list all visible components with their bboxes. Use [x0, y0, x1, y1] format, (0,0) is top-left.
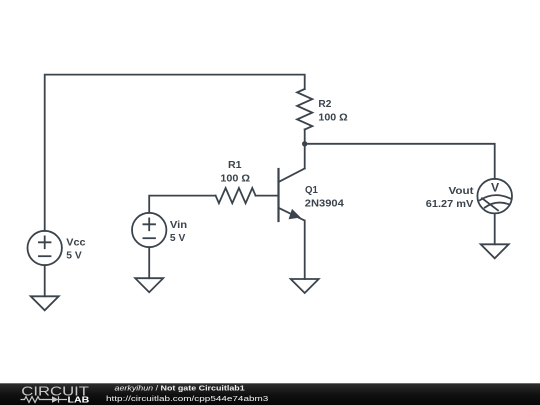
svg-text:2N3904: 2N3904 [305, 198, 344, 209]
ground (Vcc) [31, 296, 59, 310]
resistor R1 [216, 188, 256, 203]
logo resistor + diode line [21, 396, 68, 402]
svg-text:5 V: 5 V [170, 233, 186, 244]
wire emitter to ground [304, 221, 306, 280]
svg-text:61.27 mV: 61.27 mV [426, 199, 474, 210]
svg-text:Vout: Vout [449, 186, 475, 197]
transistor Q1 [279, 169, 305, 222]
svg-text:5 V: 5 V [66, 250, 82, 261]
label R1 value [220, 160, 250, 184]
label Vout value [426, 186, 474, 210]
label R2 value [318, 99, 347, 123]
wire voltmeter to ground [494, 213, 496, 244]
wire Vin to ground [148, 247, 150, 278]
ground (voltmeter) [481, 244, 509, 258]
svg-text:100 Ω: 100 Ω [318, 113, 347, 124]
svg-text:http://circuitlab.com/cpp544e7: http://circuitlab.com/cpp544e74abm3 [106, 394, 268, 403]
label Vin [170, 220, 187, 244]
ground (emitter) [291, 279, 319, 293]
label Q1 [305, 185, 344, 209]
ground (Vin) [135, 278, 163, 292]
resistor R2 [297, 89, 312, 130]
logo diode triangle [52, 396, 59, 402]
voltage source Vin [132, 213, 166, 247]
svg-text:Vin: Vin [170, 220, 187, 231]
svg-text:aerkyihun / Not gate Circuitla: aerkyihun / Not gate Circuitlab1 [115, 383, 245, 392]
wire Vin to R1 [149, 196, 215, 213]
svg-text:R1: R1 [228, 160, 242, 171]
voltmeter Vout [477, 179, 512, 214]
svg-text:100 Ω: 100 Ω [220, 173, 250, 184]
svg-text:V: V [491, 181, 500, 195]
wire R2 bottom to collector [304, 130, 306, 169]
svg-text:Q1: Q1 [305, 185, 318, 196]
wire Vcc to ground [44, 265, 46, 296]
wire base to R1 [256, 195, 279, 197]
svg-text:Vcc: Vcc [66, 238, 86, 249]
label Vcc [66, 238, 86, 262]
svg-text:R2: R2 [318, 99, 331, 110]
voltage source Vcc [28, 231, 62, 265]
svg-text:LAB: LAB [68, 395, 90, 405]
node: output junction [302, 141, 307, 146]
wire Vcc top to R2 top [45, 75, 305, 231]
wire output node to voltmeter [305, 144, 495, 179]
